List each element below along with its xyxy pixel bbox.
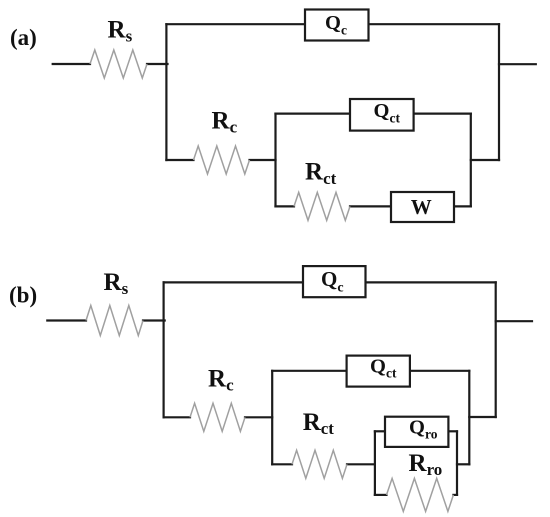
wire: (b) right rail of Qc parallel block — [495, 282, 497, 417]
wire: (a) right terminal — [499, 63, 536, 65]
wire: (a) Qct branch left — [276, 112, 351, 114]
wire: (b) Qro block to inner right rail — [457, 463, 469, 465]
wire: (a) Rs to node A — [147, 63, 168, 65]
wire: (b) Rc to Qct block — [245, 416, 272, 418]
wire: (b) Rro branch left stub — [375, 494, 387, 496]
wire: (a) Qct branch right — [414, 112, 471, 114]
CPE box Qct (a) — [350, 99, 414, 131]
wire: (b) Rc branch from left rail — [164, 416, 190, 418]
resistor Rs (b) — [86, 306, 143, 336]
wire: (a) W to inner right rail — [454, 205, 471, 207]
wire: (b) left rail of Qc parallel block — [163, 282, 165, 417]
wire: (b) top rail left of Qc — [164, 281, 303, 283]
wire: (a) Rc branch from left rail — [166, 159, 193, 161]
wire: (b) Qro branch left stub — [375, 430, 385, 432]
wire: (b) inner right rail (Qct block) — [468, 371, 470, 465]
resistor Rct (a) — [294, 192, 350, 220]
wire: (b) inner block to right rail — [469, 416, 495, 418]
wire: (a) Rc to inner block — [250, 159, 276, 161]
wire: (b) Qct branch left — [272, 370, 346, 372]
resistor Rc (a) — [194, 146, 250, 174]
wire: (b) inner left rail (Qct block) — [271, 371, 273, 465]
wire: (a) top rail left of Qc — [166, 23, 305, 25]
wire: (b) Qct branch right — [410, 370, 469, 372]
wire: (a) top rail right of Qc — [369, 23, 500, 25]
wire: (b) Rs to node — [143, 319, 165, 321]
CPE box Qro (b) — [385, 417, 448, 447]
wire: (a) right rail of Qc parallel block — [498, 24, 500, 160]
resistor Rct (b) — [292, 450, 347, 478]
Warburg box W (a) — [391, 192, 454, 222]
wire: (a) inner right rail (Qct block) — [470, 114, 472, 207]
wire: (b) innermost left rail (Qro block) — [374, 431, 376, 495]
wire: (a) bottom branch left of Rct — [276, 205, 295, 207]
wire: (a) left rail of Qc parallel block — [165, 24, 167, 160]
CPE box Qc (a) — [305, 10, 369, 41]
svg-text:(b): (b) — [9, 283, 37, 308]
wire: (b) Rct branch left — [272, 463, 292, 465]
wire: (b) top rail right of Qc — [366, 281, 496, 283]
wire: (b) left terminal — [47, 319, 86, 321]
wire: (b) Qro branch right stub — [448, 430, 457, 432]
svg-text:(a): (a) — [10, 25, 37, 50]
wire: (b) Rro branch right stub — [453, 494, 457, 496]
svg-text:W: W — [411, 195, 432, 219]
wire: (b) right terminal — [496, 320, 532, 322]
resistor Rc (b) — [190, 403, 245, 431]
resistor Rs (a) — [90, 50, 147, 78]
wire: (a) inner left rail (Qct block) — [274, 114, 276, 207]
wire: (a) Rct to W — [350, 205, 391, 207]
CPE box Qct (b) — [347, 356, 410, 387]
resistor Rro (b) — [387, 478, 454, 511]
wire: (b) innermost right rail (Qro block) — [456, 431, 458, 495]
wire: (a) inner block to right rail — [471, 159, 499, 161]
wire: (b) Rct to Qro block — [347, 463, 375, 465]
CPE box Qc (b) — [303, 266, 366, 297]
wire: (a) left terminal — [53, 63, 90, 65]
